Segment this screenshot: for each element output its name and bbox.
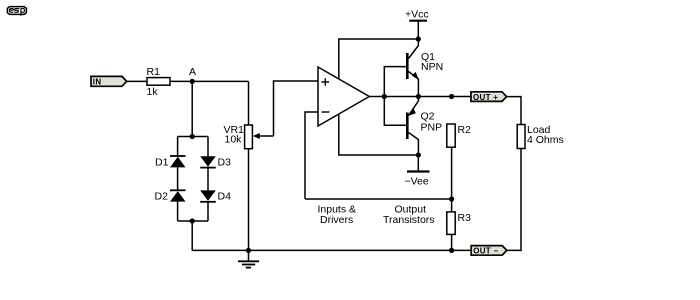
- wire op-amp V- pin down: [339, 114, 419, 156]
- tag OUT-: [471, 246, 507, 256]
- transistor Q2: [407, 97, 418, 156]
- wire R3 bottom to rail: [451, 234, 453, 250]
- wire op-amp minus input: [305, 112, 318, 199]
- svg-text:R1: R1: [147, 66, 161, 78]
- svg-text:D3: D3: [218, 156, 232, 168]
- junction ground: [246, 248, 251, 253]
- svg-text:OUT −: OUT −: [473, 247, 498, 256]
- svg-text:10k: 10k: [225, 134, 243, 146]
- wire feedback node to R3: [451, 199, 453, 212]
- resistor R2: [447, 124, 455, 147]
- svg-text:+Vcc: +Vcc: [405, 9, 429, 21]
- svg-text:OUT +: OUT +: [473, 93, 498, 102]
- wire output to Q2 base: [384, 97, 406, 126]
- svg-text:4 Ohms: 4 Ohms: [527, 134, 564, 146]
- junction diode bottom: [190, 218, 195, 223]
- diode D3: [200, 156, 216, 167]
- wire left diode branch: [177, 137, 179, 222]
- wire emitter rail to OUT+: [384, 96, 471, 98]
- wire op-amp output: [369, 96, 384, 98]
- svg-text:PNP: PNP: [421, 122, 443, 134]
- wire feedback to R2/R3 node: [305, 198, 452, 200]
- svg-text:D2: D2: [155, 191, 169, 203]
- wire bottom rail: [192, 249, 471, 251]
- wire node A down to diode bridge: [191, 81, 193, 136]
- wire R1 to VR1 corner: [170, 80, 249, 82]
- diode D1: [170, 156, 186, 167]
- wire diode bottom bar: [178, 220, 208, 222]
- op-amp U1: [318, 67, 369, 126]
- svg-text:R3: R3: [458, 212, 472, 224]
- ground: [238, 250, 259, 267]
- junction Vcc: [416, 36, 421, 41]
- svg-text:IN: IN: [93, 78, 102, 87]
- power -Vee: [407, 155, 430, 172]
- wire OUT+ to load corner: [507, 97, 521, 125]
- junction feedback node: [449, 196, 454, 201]
- transistor Q1: [407, 39, 419, 97]
- svg-text:Transistors: Transistors: [383, 214, 435, 226]
- resistor R3: [447, 212, 455, 235]
- svg-text:Drivers: Drivers: [320, 214, 353, 226]
- wire op-amp V+ pin to Vcc rail: [339, 39, 419, 80]
- wire VR1 bottom to ground rail: [248, 149, 250, 251]
- node A: [190, 79, 195, 84]
- wire IN to R1: [127, 80, 147, 82]
- svg-text:−Vee: −Vee: [405, 175, 429, 187]
- junction R3 bottom: [449, 248, 454, 253]
- power +Vcc: [409, 21, 427, 39]
- junction emitters: [416, 94, 421, 99]
- svg-text:1k: 1k: [147, 86, 159, 98]
- svg-text:NPN: NPN: [421, 61, 443, 73]
- junction output: [382, 94, 387, 99]
- svg-text:D1: D1: [155, 156, 169, 168]
- wire right diode branch: [207, 137, 209, 222]
- wire diode bottom to ground rail: [191, 221, 193, 250]
- wire down to VR1: [248, 81, 250, 125]
- load resistor: [517, 125, 525, 149]
- wire wiper to op-amp + input: [274, 81, 319, 136]
- tag IN: [91, 76, 127, 86]
- diode D2: [170, 190, 186, 201]
- diode D4: [200, 190, 216, 201]
- wire output to Q1 base: [384, 67, 406, 97]
- tag OUT+: [471, 92, 507, 102]
- svg-text:D4: D4: [218, 191, 232, 203]
- wire R2 bottom to feedback node: [451, 147, 453, 199]
- junction R2 top: [449, 94, 454, 99]
- potentiometer VR1: [245, 125, 274, 149]
- ESP logo: [7, 7, 26, 16]
- junction diode top: [190, 134, 195, 139]
- wire diode top bar: [178, 136, 208, 138]
- junction Vee: [416, 152, 421, 157]
- resistor R1: [147, 78, 170, 86]
- svg-text:R2: R2: [458, 124, 472, 136]
- wire load bottom: [507, 149, 521, 251]
- svg-text:A: A: [189, 66, 196, 78]
